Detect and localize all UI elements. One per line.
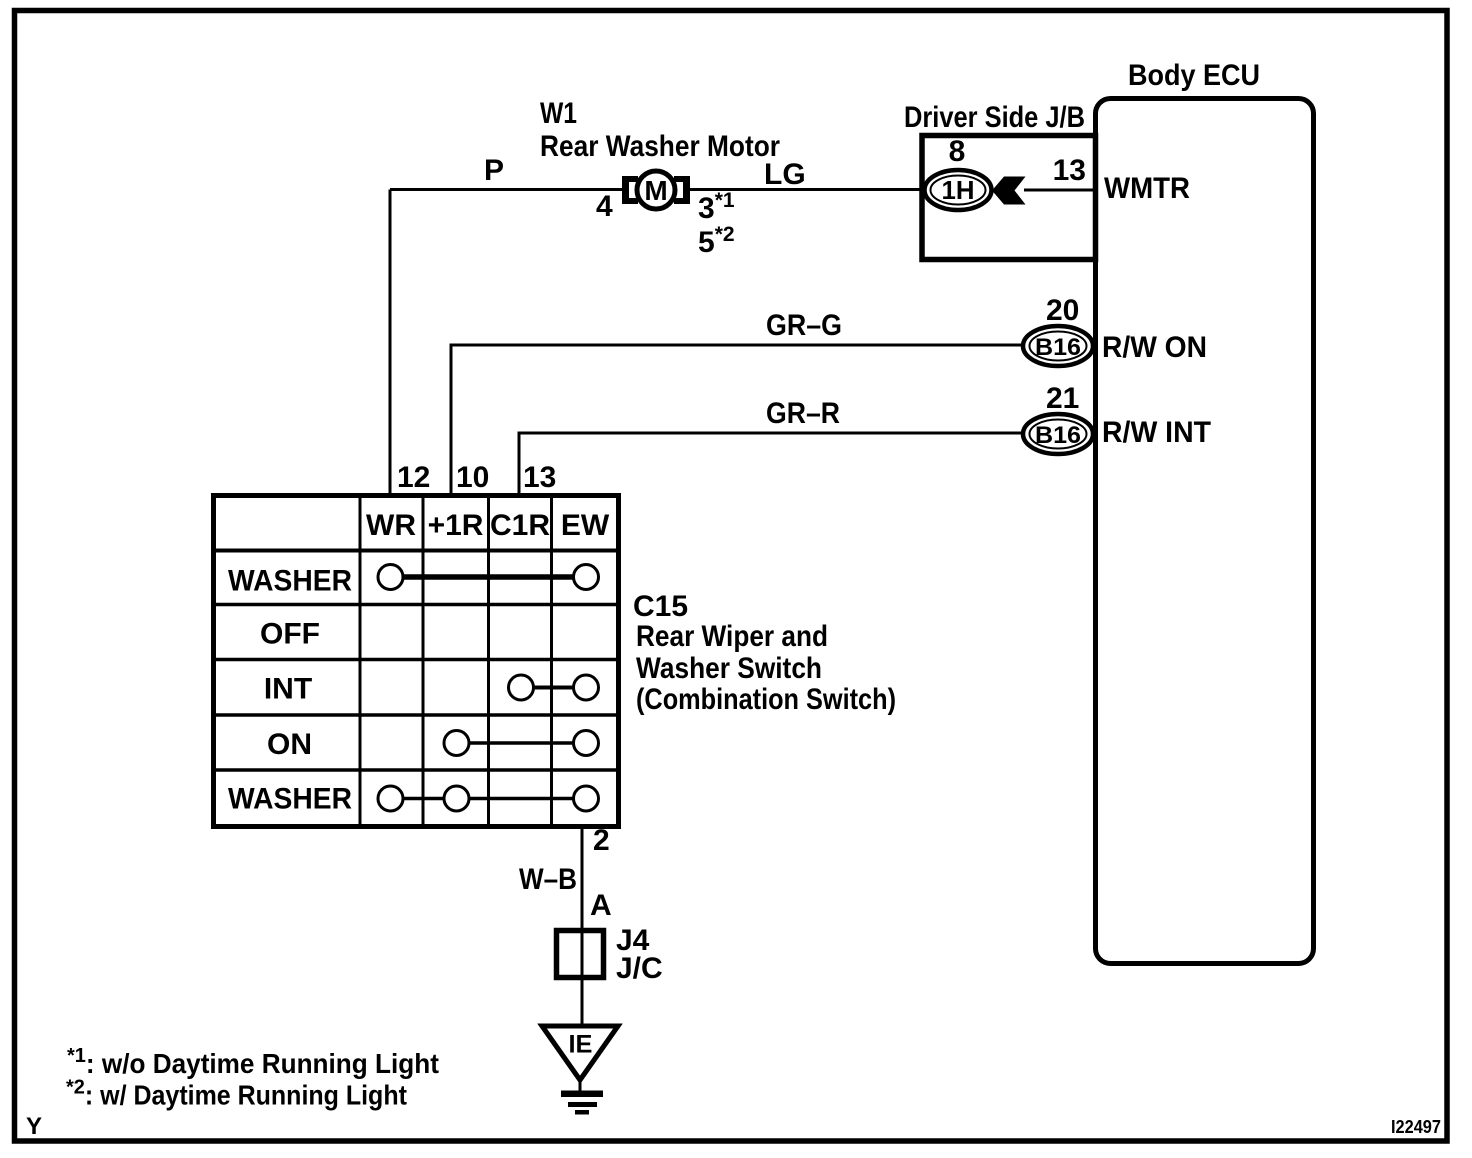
- switch row WASHER2 contact: [378, 786, 599, 811]
- svg-text:P: P: [484, 154, 504, 187]
- svg-text:I22497: I22497: [1391, 1117, 1441, 1137]
- arrow into 1H: [992, 177, 1026, 205]
- connector B16 (R/W ON): [1023, 326, 1093, 366]
- wire GR-R: [519, 433, 1023, 496]
- svg-text:ON: ON: [267, 728, 312, 761]
- svg-text:WASHER: WASHER: [228, 783, 352, 816]
- svg-text:3*1: 3*1: [698, 189, 735, 225]
- connector B16 (R/W INT): [1023, 414, 1093, 454]
- svg-text:Body ECU: Body ECU: [1128, 59, 1260, 92]
- svg-text:Rear Washer Motor: Rear Washer Motor: [540, 130, 780, 163]
- svg-text:Y: Y: [26, 1113, 42, 1140]
- svg-text:12: 12: [397, 461, 430, 494]
- svg-text:GR–R: GR–R: [766, 397, 840, 430]
- switch C15 table: [214, 496, 619, 827]
- switch C15 label: [633, 590, 896, 716]
- wire pin 12 vertical: [389, 190, 392, 497]
- svg-text:OFF: OFF: [260, 618, 320, 651]
- ground IE: [542, 1026, 618, 1115]
- svg-text:Rear Wiper and: Rear Wiper and: [636, 620, 828, 653]
- svg-text:IE: IE: [569, 1031, 593, 1059]
- Body ECU U1: [1096, 59, 1314, 964]
- svg-text:EW: EW: [561, 509, 610, 542]
- svg-text:*2: w/ Daytime Running Light: *2: w/ Daytime Running Light: [66, 1077, 407, 1111]
- svg-text:C15: C15: [633, 590, 688, 623]
- svg-text:B16: B16: [1035, 334, 1081, 361]
- svg-text:10: 10: [456, 461, 489, 494]
- svg-text:GR–G: GR–G: [766, 309, 842, 342]
- svg-text:1H: 1H: [942, 175, 975, 205]
- svg-text:W1: W1: [540, 97, 577, 130]
- svg-text:8: 8: [949, 135, 966, 168]
- svg-text:2: 2: [593, 824, 610, 857]
- wire 1H to WMTR: [1024, 189, 1095, 192]
- switch row ON contact: [444, 731, 599, 756]
- junction connector J4: [557, 924, 663, 985]
- svg-text:13: 13: [1053, 154, 1086, 187]
- svg-text:WMTR: WMTR: [1104, 172, 1190, 205]
- connector 1H: [925, 135, 992, 210]
- svg-text:INT: INT: [264, 673, 312, 706]
- switch row INT contact: [509, 675, 599, 700]
- svg-text:(Combination Switch): (Combination Switch): [636, 683, 896, 716]
- svg-text:M: M: [644, 175, 667, 206]
- svg-text:13: 13: [523, 461, 556, 494]
- svg-text:*1: w/o Daytime Running Light: *1: w/o Daytime Running Light: [67, 1045, 439, 1079]
- svg-text:R/W ON: R/W ON: [1102, 331, 1207, 364]
- motor W1: [622, 171, 690, 209]
- svg-text:J/C: J/C: [616, 952, 663, 985]
- svg-text:20: 20: [1046, 294, 1079, 327]
- svg-text:C1R: C1R: [490, 509, 550, 542]
- wire: P / LG from washer motor to junction block: [390, 188, 625, 191]
- svg-text:A: A: [590, 889, 612, 922]
- svg-text:Washer Switch: Washer Switch: [636, 652, 822, 685]
- Driver Side J/B box: [904, 101, 1096, 260]
- svg-text:+1R: +1R: [428, 509, 484, 542]
- switch row WASHER contact: [378, 565, 599, 590]
- svg-text:WASHER: WASHER: [228, 565, 352, 598]
- svg-text:4: 4: [596, 190, 613, 223]
- svg-text:5*2: 5*2: [698, 223, 735, 259]
- svg-text:Driver Side J/B: Driver Side J/B: [904, 101, 1085, 134]
- wire pin 2 to ground: [581, 827, 584, 1027]
- wire GR-G: [451, 345, 1023, 496]
- svg-text:WR: WR: [366, 509, 416, 542]
- svg-text:R/W INT: R/W INT: [1102, 416, 1211, 449]
- svg-text:21: 21: [1046, 382, 1079, 415]
- svg-text:B16: B16: [1035, 422, 1081, 449]
- svg-text:W–B: W–B: [519, 863, 577, 896]
- wire: [687, 188, 926, 191]
